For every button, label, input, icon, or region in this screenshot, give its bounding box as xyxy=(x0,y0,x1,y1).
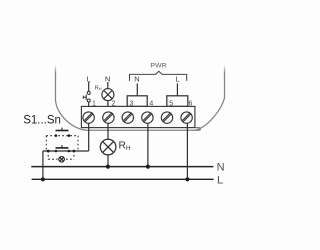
L rail xyxy=(32,178,214,180)
terminal screw 5 xyxy=(161,112,172,123)
lamp RH upper xyxy=(102,89,114,101)
junction dots on button bus xyxy=(47,150,50,153)
wire L to box2 xyxy=(176,83,178,95)
svg-text:PWR: PWR xyxy=(150,63,166,70)
svg-text:N: N xyxy=(217,161,225,173)
housing outline right side xyxy=(224,65,226,74)
svg-text:5: 5 xyxy=(169,101,173,108)
wire terminal 6 down xyxy=(186,123,188,179)
push button S1 xyxy=(55,128,71,137)
svg-text:L: L xyxy=(87,74,91,83)
wire N to upper lamp xyxy=(107,82,109,89)
lamp RH main xyxy=(100,139,116,155)
glow lamp in dashed box xyxy=(59,157,65,163)
svg-text:6: 6 xyxy=(189,101,193,108)
wire terminal 1 down xyxy=(88,123,90,151)
svg-text:RH: RH xyxy=(95,85,102,91)
PWR bracket xyxy=(130,71,187,81)
push button S2 xyxy=(55,145,71,152)
junction dot lamp-N xyxy=(106,165,110,169)
switch S actuator xyxy=(83,96,86,98)
svg-text:4: 4 xyxy=(149,101,153,108)
housing collar lower edge xyxy=(86,128,200,131)
wire buttons to L rail xyxy=(42,151,44,179)
terminal box jumper 5-6 xyxy=(167,96,188,107)
wire upper lamp to terminal 2 xyxy=(107,101,109,107)
junction dot term4-N xyxy=(146,165,150,169)
svg-text:N: N xyxy=(134,75,139,84)
terminal strip body xyxy=(81,106,194,127)
svg-text:3: 3 xyxy=(129,101,133,108)
switch S (push-button) upper contact xyxy=(87,91,90,94)
wire terminal 2 down xyxy=(107,123,109,139)
wire lamp to N rail xyxy=(107,155,109,167)
wire switch to terminal 1 xyxy=(88,102,90,107)
terminal screw 3 xyxy=(122,112,133,123)
terminal screw 2 xyxy=(103,112,114,123)
svg-text:S1...Sn: S1...Sn xyxy=(23,114,61,126)
svg-text:1: 1 xyxy=(92,101,96,108)
switch S lower contact xyxy=(87,99,90,102)
terminal box jumper 3-4 xyxy=(127,96,147,107)
wire N to box1 xyxy=(136,83,138,95)
terminal screw 4 xyxy=(142,112,153,123)
svg-text:L: L xyxy=(217,175,223,187)
junction dot buttons-L xyxy=(41,177,45,181)
svg-text:L: L xyxy=(175,75,179,84)
wire buttons bus xyxy=(43,150,89,152)
junction dot term6-L xyxy=(185,177,189,181)
svg-text:N: N xyxy=(105,74,110,83)
housing outline left side xyxy=(55,65,57,74)
svg-text:2: 2 xyxy=(111,101,115,108)
wire terminal 4 down xyxy=(147,123,149,166)
terminal screw 6 xyxy=(181,112,192,123)
dashed box S1...Sn xyxy=(46,136,78,160)
switch S bridge bar xyxy=(85,95,87,100)
N rail xyxy=(31,166,213,168)
terminal screw 1 xyxy=(83,112,94,123)
wire L to switch xyxy=(88,82,90,91)
